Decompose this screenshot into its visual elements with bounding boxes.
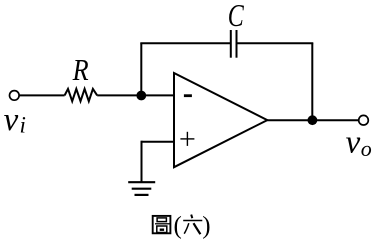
input terminal vi (open circle) — [10, 91, 20, 101]
glyph 六 top dot — [191, 215, 192, 219]
resistor R — [65, 89, 98, 101]
op-amp U1 (triangle) — [174, 73, 267, 167]
svg-text:C: C — [228, 0, 244, 33]
label vo — [346, 125, 372, 162]
wire feedback down to output node — [311, 43, 313, 120]
node B (junction dot at output) — [308, 115, 318, 125]
wire node A up to feedback branch — [140, 43, 142, 95]
svg-text:i: i — [20, 113, 26, 138]
output terminal vo (open circle) — [359, 115, 369, 125]
glyph 圖 middle bar — [155, 223, 170, 225]
label vi — [4, 102, 26, 138]
wire op-amp output to terminal — [267, 119, 359, 121]
wire input to resistor — [19, 94, 64, 96]
svg-text:): ) — [202, 213, 210, 240]
glyph 圖 inner fill — [160, 229, 164, 231]
glyph 圖 outer box — [153, 216, 171, 233]
glyph 六 left leg — [184, 223, 189, 234]
caption 圖(六) : CJK drawn as vectors — [153, 216, 171, 233]
wire feedback top-left to capacitor — [140, 42, 231, 44]
svg-text:R: R — [72, 52, 89, 87]
glyph 六 right leg — [194, 223, 201, 234]
op-amp inverting input marker (-) — [184, 94, 192, 97]
wire resistor to op-amp inverting input — [97, 94, 174, 96]
glyph 六 horizontal stroke — [183, 220, 202, 222]
wire non-inverting input to ground branch — [142, 141, 175, 143]
wire capacitor to feedback top-right corner — [237, 42, 314, 44]
svg-text:v: v — [346, 125, 361, 161]
wire down to ground — [141, 141, 143, 183]
capacitor C (two plates) — [231, 30, 237, 58]
svg-text:o: o — [361, 136, 372, 161]
node A (junction dot at inverting input) — [136, 91, 146, 101]
svg-text:(: ( — [174, 213, 182, 240]
op-amp non-inverting input marker (+) — [180, 132, 194, 146]
svg-text:v: v — [4, 102, 19, 138]
ground — [128, 182, 155, 195]
glyph 圖 lower box — [157, 226, 167, 233]
glyph 圖 top mouth — [157, 218, 166, 222]
